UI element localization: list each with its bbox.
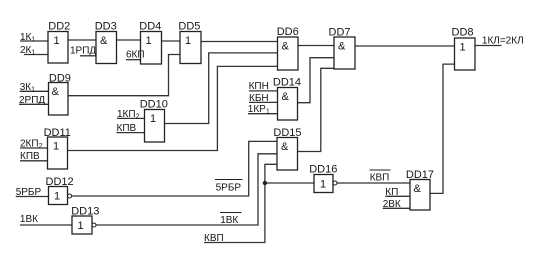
wire KPN stub into DD14 [249,90,278,92]
svg-text:DD8: DD8 [452,27,474,39]
svg-text:1: 1 [53,141,59,153]
wire KP stub into DD17 [385,195,410,197]
wire 1RPD stub into DD3 [80,55,96,57]
gate DD6 box [278,37,299,70]
svg-text:1: 1 [54,191,60,203]
svg-text:&: & [282,41,290,53]
svg-text:DD6: DD6 [277,26,299,38]
svg-text:2ВК: 2ВК [383,199,401,210]
svg-text:1: 1 [185,35,191,47]
wire DD2 out to DD3 [68,39,96,41]
wire DD3 out to DD4 [117,39,141,41]
svg-text:DD7: DD7 [329,27,351,39]
wire KBN stub into DD14 [249,101,278,103]
wire KVP branch to DD16 input [265,182,314,184]
svg-text:КПВ: КПВ [20,151,40,162]
svg-text:DD17: DD17 [406,169,434,181]
svg-text:1КП2: 1КП2 [117,109,140,121]
gate DD12 box [49,187,68,205]
gate DD2 box [48,32,68,64]
svg-text:DD9: DD9 [49,73,71,85]
svg-text:5РБР: 5РБР [216,183,242,194]
gate DD5 box [180,32,201,64]
wire 2VK stub into DD17 [383,207,410,209]
inverter bubble DD13 [92,223,96,227]
wire 3K1 input [20,90,49,92]
svg-text:DD14: DD14 [273,77,301,89]
svg-text:1: 1 [54,35,60,47]
svg-text:DD10: DD10 [140,99,168,111]
gate DD7 box [334,37,355,69]
gate DD4 box [141,32,162,65]
svg-text:6КП: 6КП [126,50,145,61]
svg-text:1РПД: 1РПД [70,46,96,57]
overline for KVP [370,169,391,171]
wire DD10 out to DD6 input 2 [165,53,278,124]
svg-text:1: 1 [460,42,466,54]
svg-text:&: & [100,35,108,47]
wire DD7 out to DD8 input 1 [355,45,455,47]
wire 1VK input [20,224,72,226]
overline for 1VK [220,212,242,214]
wire DD13 out to DD15 input 2 [96,154,277,225]
svg-text:2РПД: 2РПД [19,95,45,106]
svg-text:КПВ: КПВ [117,123,137,134]
svg-text:1К1: 1К1 [20,32,35,44]
svg-text:1: 1 [150,113,156,125]
svg-text:КВП: КВП [204,233,224,244]
wire KPV input to DD11 [20,160,48,162]
wire DD17 out to DD8 input 2 [430,64,455,193]
svg-text:&: & [281,141,289,153]
svg-text:2КП2: 2КП2 [20,138,43,150]
wire 1K1 input [20,40,48,42]
wire 6KP stub into DD4 [126,59,141,61]
svg-text:3К1: 3К1 [20,82,35,94]
svg-text:КП: КП [385,187,398,198]
svg-text:1: 1 [320,179,326,191]
wire KPV input to DD10 [117,132,145,134]
overline for 5RBR [215,179,243,181]
svg-text:КПН: КПН [249,81,269,92]
wire 2K1 input [24,54,48,56]
wire DD12 out to DD15 input 1 [72,141,278,196]
gate DD10 box [145,110,165,143]
wire 2RPD input [19,103,49,105]
gate DD17 box [410,180,430,211]
svg-text:1ВК: 1ВК [20,214,38,225]
svg-text:&: & [52,86,60,98]
wire DD8 output [475,45,502,47]
svg-text:DD2: DD2 [48,21,70,33]
wire DD11 out to DD6 input 3 [68,66,278,150]
wire 5RBR input [16,196,49,198]
svg-text:&: & [338,41,346,53]
gate DD13 box [72,216,92,234]
svg-text:DD16: DD16 [309,164,337,176]
wire 1KR1 stub into DD14 [248,113,278,115]
svg-text:DD11: DD11 [44,127,71,139]
svg-text:DD4: DD4 [139,21,161,33]
gate DD8 box [455,38,476,70]
wire 2KP2 input [20,147,48,149]
svg-text:КБН: КБН [249,93,269,104]
wire DD15 out to DD7 input 3 [298,68,335,151]
junction node KVP [263,181,267,185]
wire DD5 out to DD6 input 1 [201,41,278,43]
wire DD4 out to DD5 [162,40,181,42]
svg-text:1: 1 [146,35,152,47]
gate DD11 box [48,137,68,169]
wire KVP net vertical to DD15 input 3 [204,164,277,242]
svg-text:DD3: DD3 [95,21,117,33]
svg-text:DD13: DD13 [71,206,99,218]
wire DD14 out to DD7 input 2 [298,58,335,103]
svg-text:&: & [414,183,422,195]
svg-text:2К1: 2К1 [20,45,35,57]
svg-text:&: & [282,91,290,103]
wire DD6 out to DD7 input 1 [298,45,334,47]
gate DD16 box [314,175,333,193]
svg-text:1КЛ=2КЛ: 1КЛ=2КЛ [482,36,524,47]
svg-text:1ВК: 1ВК [220,215,238,226]
wire DD9 out to DD5 input 2 [68,55,180,96]
gate DD14 box [278,88,298,121]
svg-text:1: 1 [78,220,84,232]
gate DD3 box [96,32,117,64]
gate DD9 box [49,83,69,116]
svg-text:5РБР: 5РБР [16,187,42,198]
svg-text:КВП: КВП [370,173,390,184]
svg-text:DD5: DD5 [178,21,200,33]
gate DD15 box [277,138,298,171]
wire DD16 out to DD17 input 1 [337,182,410,184]
inverter bubble DD12 [68,194,72,198]
svg-text:DD15: DD15 [273,127,301,139]
wire 1KP2 input [117,117,145,119]
inverter bubble DD16 [333,181,337,185]
svg-text:DD12: DD12 [46,176,74,188]
svg-text:1КР1: 1КР1 [248,104,270,116]
